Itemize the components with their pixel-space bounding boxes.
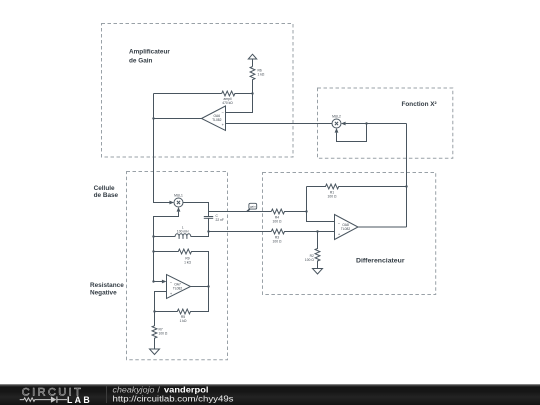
- svg-text:100 Ω: 100 Ω: [305, 258, 314, 262]
- wire MUL1 output: [183, 203, 209, 217]
- svg-text:100 Ω: 100 Ω: [273, 240, 282, 244]
- multiplier MUL1: [174, 198, 183, 207]
- arrow into OA7 inverting input: [162, 280, 167, 284]
- op-amp OA6 TL082 (points left): [202, 106, 226, 131]
- wire OA7 non-inverting input: [155, 292, 167, 312]
- svg-text:Negative: Negative: [90, 290, 117, 297]
- value label R1 100 Ohm: [328, 190, 337, 198]
- annotation box Differenciateur: [263, 173, 436, 295]
- wire X2 input rail down to differentiator: [406, 124, 408, 228]
- value label R5 1 kOhm: [180, 315, 187, 323]
- logo waveform resistor: [20, 398, 67, 402]
- svg-text:LAB: LAB: [67, 395, 92, 405]
- value label R3 100 Ohm: [273, 236, 282, 244]
- svg-text:gain: gain: [250, 205, 256, 209]
- value label L 100 mH: [177, 226, 189, 234]
- wire node below cap to differentiator R3: [209, 231, 272, 233]
- wire OA6 + input to MUL2 output: [226, 123, 333, 125]
- ground (below R7): [150, 349, 160, 355]
- op-amp OA7 labels: [170, 280, 183, 296]
- resistor R4 100 Ohm: [271, 209, 306, 214]
- CircuitLab logo wordmark CIRCUIT: [22, 387, 83, 399]
- wire MUL2 bottom loop: [337, 124, 367, 142]
- node junction below cap: [207, 230, 209, 232]
- node junction plus network: [153, 310, 155, 312]
- wire node above cap to differentiator R4: [209, 211, 272, 213]
- value label R6 1 kOhm: [258, 69, 265, 77]
- label Resistance Negative: [90, 282, 124, 297]
- node junction inductor left: [152, 235, 154, 237]
- node junction MUL2 loop: [365, 122, 367, 124]
- svg-text:MUL1: MUL1: [174, 193, 183, 197]
- node junction feedback right: [405, 185, 407, 187]
- label Amplificateur de Gain: [129, 49, 170, 65]
- svg-text:Fonction X²: Fonction X²: [402, 101, 437, 108]
- wire feedback left rail to OA8 inverting input: [307, 187, 335, 222]
- arrow into MUL1 X input: [169, 201, 174, 205]
- svg-text:TL082: TL082: [173, 286, 183, 290]
- svg-text:Differenciateur: Differenciateur: [356, 258, 405, 265]
- annotation box Cellule de Base / Resistance Negative: [127, 172, 228, 360]
- wire OA7 output: [191, 286, 209, 288]
- value label C 22 nF: [216, 214, 224, 222]
- svg-text:100 Ω: 100 Ω: [273, 220, 282, 224]
- power +V supply arrow: [248, 54, 256, 66]
- resistor R3 100 Ohm: [271, 229, 334, 234]
- node junction OA7 inverting input: [152, 280, 154, 282]
- svg-text:de Gain: de Gain: [129, 58, 153, 65]
- wire OA7 inverting input: [154, 281, 163, 283]
- value label R7 100 Ohm: [159, 328, 168, 336]
- node junction OA7 output: [207, 285, 209, 287]
- resistor ampli 470 kOhm: [222, 91, 253, 96]
- resistor R7 100 Ohm: [152, 312, 157, 350]
- svg-text:Resistance: Resistance: [90, 282, 124, 289]
- value label R4 100 Ohm: [273, 216, 282, 224]
- wire OA6 output to left rail: [154, 118, 202, 120]
- svg-text:TL082: TL082: [212, 118, 222, 122]
- capacitor C 22 nF: [204, 217, 213, 232]
- op-amp OA8 labels: [338, 220, 351, 236]
- value label R9 1 kOhm: [184, 257, 191, 265]
- svg-text:100 Ω: 100 Ω: [159, 332, 168, 336]
- svg-text:de Base: de Base: [94, 192, 119, 199]
- svg-text:100 Ω: 100 Ω: [328, 194, 337, 198]
- arrow into MUL2 bottom input: [335, 128, 339, 133]
- logo diode: [51, 396, 57, 402]
- wire OA8 output: [358, 226, 407, 228]
- node junction R9 tap: [152, 250, 154, 252]
- arrow into MUL2 right input: [341, 122, 346, 126]
- svg-text:Amplificateur: Amplificateur: [129, 49, 170, 56]
- node junction at R6/470k: [251, 92, 253, 94]
- footer bar CircuitLab: [0, 384, 540, 405]
- svg-text:1 kΩ: 1 kΩ: [258, 73, 265, 77]
- net flag gain: [247, 203, 257, 211]
- label Differenciateur: [356, 258, 405, 265]
- op-amp OA6 labels: [212, 110, 225, 127]
- ground (below R2): [313, 269, 323, 275]
- svg-text:470 kΩ: 470 kΩ: [222, 101, 233, 105]
- svg-text:1 kΩ: 1 kΩ: [180, 319, 187, 323]
- multiplier MUL2: [332, 119, 341, 128]
- logo wordmark LAB: [67, 395, 92, 405]
- svg-text:22 nF: 22 nF: [216, 218, 224, 222]
- op-amp OA7 TL082: [167, 275, 191, 299]
- resistor R2 100 Ohm: [315, 232, 320, 269]
- footer divider: [106, 386, 108, 403]
- label Fonction X2: [402, 101, 437, 108]
- node junction R2 tap: [316, 230, 318, 232]
- wire MUL1 Y input to left rail: [154, 212, 179, 282]
- svg-text:MUL2: MUL2: [332, 114, 341, 118]
- wire left rail down to MUL1 X input: [154, 94, 170, 203]
- resistor R1 100 Ohm (differentiator feedback): [307, 184, 407, 189]
- op-amp OA8 TL082: [335, 215, 359, 240]
- node junction R4/R1: [305, 210, 307, 212]
- svg-text:http://circuitlab.com/chyy49s: http://circuitlab.com/chyy49s: [113, 393, 234, 403]
- svg-text:1 kΩ: 1 kΩ: [184, 261, 191, 265]
- resistor R9 1 kOhm: [154, 249, 209, 286]
- node junction OA6 output: [152, 117, 154, 119]
- arrow into MUL1 Y input: [177, 207, 181, 212]
- annotation box Amplificateur de Gain: [102, 24, 294, 158]
- wire feedback top (left rail to 470k): [154, 93, 222, 95]
- annotation box Fonction X2: [318, 88, 453, 158]
- label Cellule de Base: [94, 185, 119, 199]
- inductor L 100 mH: [154, 234, 191, 239]
- wire MUL2 right input: [346, 123, 407, 125]
- wire to OA6 inverting input: [226, 94, 253, 113]
- svg-text:TL082: TL082: [341, 227, 351, 231]
- value label R2 100 Ohm: [305, 254, 314, 262]
- svg-text:Cellule: Cellule: [94, 185, 115, 192]
- svg-text:100 mH: 100 mH: [177, 230, 189, 234]
- resistor R5 1 kOhm: [155, 287, 209, 314]
- resistor R6 1 kOhm (amplifier): [250, 67, 255, 94]
- wire cap bottom to inductor: [191, 232, 209, 237]
- value label ampli 470 kOhm: [222, 97, 233, 105]
